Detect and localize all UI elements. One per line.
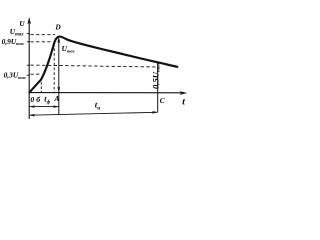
svg-text:A: A	[53, 94, 59, 103]
dashed level line 0.5Umax	[30, 65, 157, 67]
dashed level line 0.9Umax	[30, 41, 52, 43]
axis U (vertical)	[27, 17, 31, 119]
svg-text:t: t	[182, 97, 185, 107]
tick Umax	[27, 33, 30, 35]
svg-text:0: 0	[30, 95, 34, 104]
Umax dimension arrow under peak, point A extension	[57, 37, 60, 115]
svg-text:C: C	[160, 96, 165, 105]
svg-text:U: U	[19, 20, 25, 28]
main waveform curve	[30, 37, 178, 93]
tick 0.9Umax	[27, 41, 30, 43]
dashed level line Umax	[30, 34, 55, 36]
dashed level line 0.3Umax	[30, 73, 41, 75]
dashed vertical at 0.9 front crossing	[53, 44, 55, 93]
impulse voltage waveform figure	[0, 0, 201, 122]
vertical line at point C (0.5Umax on tail)	[157, 62, 159, 112]
dashed vertical at point б	[40, 82, 42, 92]
svg-text:D: D	[54, 23, 61, 32]
tick 0.5Umax	[27, 64, 30, 66]
dimension t_ф arrow row	[29, 105, 58, 108]
axis t (horizontal)	[29, 91, 188, 95]
dimension t_и arrow row	[29, 111, 157, 117]
tick 0.3Umax	[27, 74, 30, 76]
